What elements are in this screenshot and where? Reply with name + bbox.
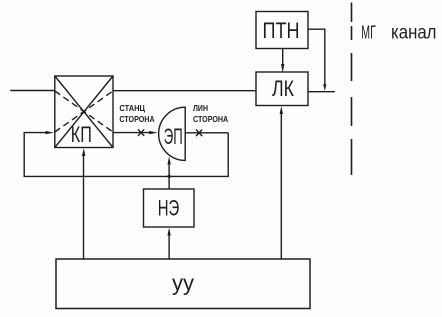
- svg-text:канал: канал: [391, 23, 437, 44]
- wire PTN right loop down to LK output: [308, 29, 326, 91]
- svg-text:СТОРОНА: СТОРОНА: [193, 114, 228, 124]
- junction dot on feedback line: [167, 175, 170, 178]
- wire UU up to LK with arrow: [280, 106, 283, 259]
- block UU: [56, 259, 310, 309]
- wire UU up to NE with arrow: [167, 228, 170, 260]
- wire EP right with cross mark: [185, 130, 228, 137]
- svg-text:МГ: МГ: [361, 23, 376, 43]
- svg-text:ЛК: ЛК: [272, 76, 294, 101]
- svg-text:ЭП: ЭП: [164, 124, 183, 149]
- label LIN STORONA: [193, 103, 228, 124]
- wire LK output right: [308, 91, 335, 93]
- svg-text:СТАНЦ: СТАНЦ: [119, 103, 145, 113]
- svg-text:уу: уу: [172, 271, 194, 296]
- wire KP to EP with cross mark and arrow: [113, 129, 158, 136]
- svg-text:НЭ: НЭ: [158, 196, 180, 221]
- block KP crosspoint switch: [55, 76, 113, 148]
- svg-text:СТОРОНА: СТОРОНА: [119, 114, 154, 124]
- block PTN: [256, 12, 308, 49]
- wire input left to KP: [10, 90, 55, 92]
- wire KP to LK: [113, 90, 256, 92]
- dashed boundary line MG channel: [351, 3, 353, 176]
- block NE: [144, 189, 195, 227]
- block EP half-disc: [159, 107, 186, 160]
- wire UU up to KP with arrow: [82, 148, 85, 259]
- label MG kanal: [361, 23, 436, 44]
- wire PTN down to LK with arrow: [281, 49, 284, 73]
- block LK: [256, 72, 308, 106]
- svg-text:ПТН: ПТН: [263, 18, 300, 43]
- label STANTS STORONA: [119, 103, 154, 124]
- svg-text:КП: КП: [71, 122, 92, 147]
- wire feedback loop EP-right down left and into KP with arrow: [24, 131, 228, 177]
- wire NE up to EP with arrow: [167, 157, 170, 190]
- svg-text:ЛИН: ЛИН: [193, 103, 208, 113]
